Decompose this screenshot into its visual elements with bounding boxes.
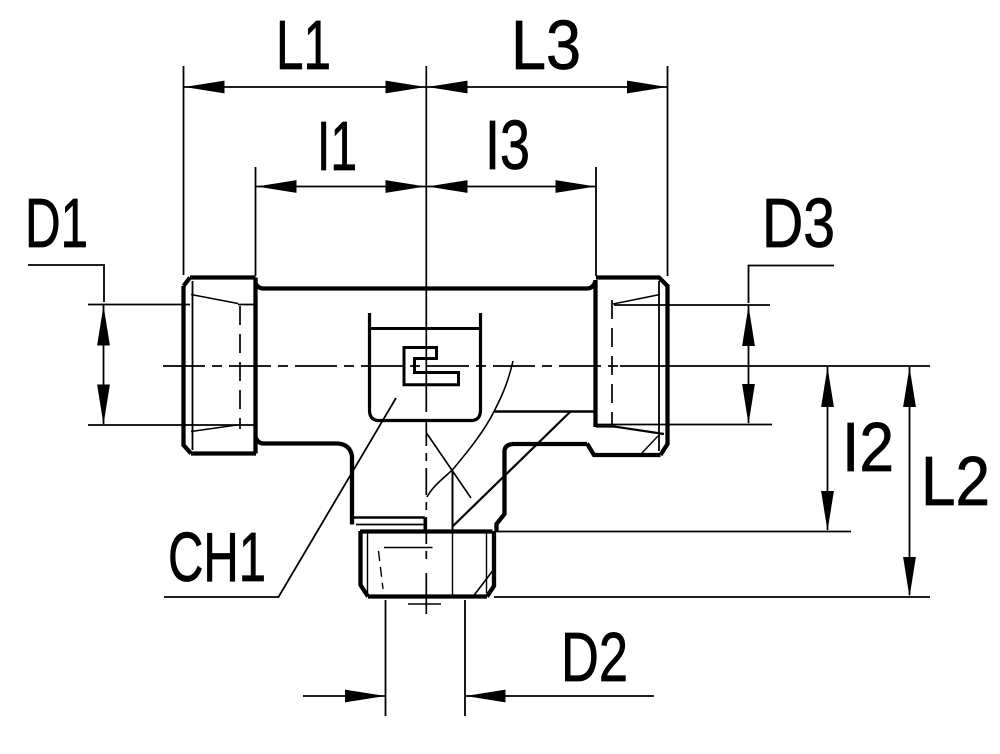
section wavy boundary: [427, 361, 513, 497]
D1 arrows: [97, 306, 110, 346]
I2 dim line: [827, 367, 829, 530]
D1 leader: [28, 265, 104, 302]
svg-text:I1: I1: [317, 107, 357, 185]
body tube top: [264, 286, 588, 290]
dim line L1: [184, 86, 426, 88]
stud thread root lines: [367, 533, 369, 594]
svg-text:D3: D3: [762, 184, 835, 262]
hex body: [370, 313, 481, 421]
D2 dim line: [303, 695, 654, 697]
D2 ext lines: [386, 600, 466, 716]
body tube bottom right: [512, 442, 587, 446]
stud outline: [360, 531, 494, 597]
hex chamfer line: [370, 327, 481, 330]
stud left hidden chamfer: [379, 551, 384, 589]
centerline horizontal extension solid: [620, 365, 930, 367]
D1 tick bottom: [88, 424, 256, 426]
tick y531: [494, 531, 851, 533]
bore vertical: [452, 470, 454, 531]
svg-text:L2: L2: [921, 442, 990, 520]
dimension ext line L1 left: [183, 66, 185, 275]
I1 arrows: [257, 180, 297, 193]
L1 arrows: [185, 81, 225, 94]
right nut face line: [658, 281, 660, 451]
D1 tick top: [88, 304, 256, 306]
D1 dim line: [103, 305, 105, 424]
stud right chamfer diagonal: [474, 571, 493, 596]
left nut outline: [184, 278, 265, 454]
stud bore vertical: [452, 531, 454, 596]
stud mark y547: [384, 547, 433, 549]
dimension ext line I3 right: [595, 167, 597, 276]
dimension ext line L3 right: [667, 66, 669, 276]
svg-text:I3: I3: [485, 106, 530, 184]
D3 leader: [749, 266, 835, 304]
arrowheads: [97, 81, 916, 703]
dim line L3: [427, 86, 667, 88]
stud top jog: [423, 518, 426, 532]
logo G in hex center: [404, 348, 459, 385]
right nut thread dashed: [611, 300, 613, 424]
left nut top chamfer diagonal: [191, 295, 238, 304]
right nut bore line: [596, 425, 614, 427]
right nut bottom chamfer cone: [614, 427, 664, 435]
body inner line right: [494, 410, 596, 412]
right nut bottom hatch: [641, 436, 658, 454]
tick y597: [494, 596, 930, 598]
right nut outline: [587, 278, 668, 456]
svg-text:D1: D1: [25, 184, 88, 262]
CH1 leader: [164, 398, 396, 597]
L3 arrows: [428, 81, 468, 94]
body tube bottom left: [264, 444, 352, 525]
svg-text:D2: D2: [561, 618, 628, 696]
svg-text:L3: L3: [511, 6, 581, 84]
centerline horizontal dashdot: [163, 365, 620, 367]
L2 arrows: [903, 367, 916, 407]
cone seat diagonal: [427, 433, 472, 498]
centerline vertical dashed: [425, 419, 427, 566]
I3 arrows: [428, 180, 468, 193]
D3 arrows: [742, 306, 755, 346]
cone right silhouette: [497, 444, 514, 531]
I2 arrows: [821, 367, 834, 407]
centerline vertical solid: [425, 66, 427, 412]
L2 dim line: [909, 367, 911, 595]
left nut thread dashed: [239, 306, 241, 429]
svg-text:I2: I2: [842, 408, 894, 486]
dim line I1 I3: [256, 186, 596, 188]
left nut face line: [192, 281, 194, 450]
svg-text:CH1: CH1: [168, 518, 266, 596]
dimension ext line I1 left: [255, 167, 257, 276]
D3 tick bottom: [596, 424, 772, 426]
stud mark y604: [408, 603, 441, 605]
D2 arrows: [345, 690, 385, 703]
left nut bottom chamfer diagonal: [191, 425, 237, 432]
D3 dim line: [748, 306, 750, 423]
svg-text:L1: L1: [276, 6, 331, 84]
D3 tick top: [614, 304, 770, 306]
stud top washer lines: [352, 516, 425, 518]
right nut top chamfer diagonal: [613, 295, 660, 305]
cone 45 diagonal: [453, 412, 571, 527]
